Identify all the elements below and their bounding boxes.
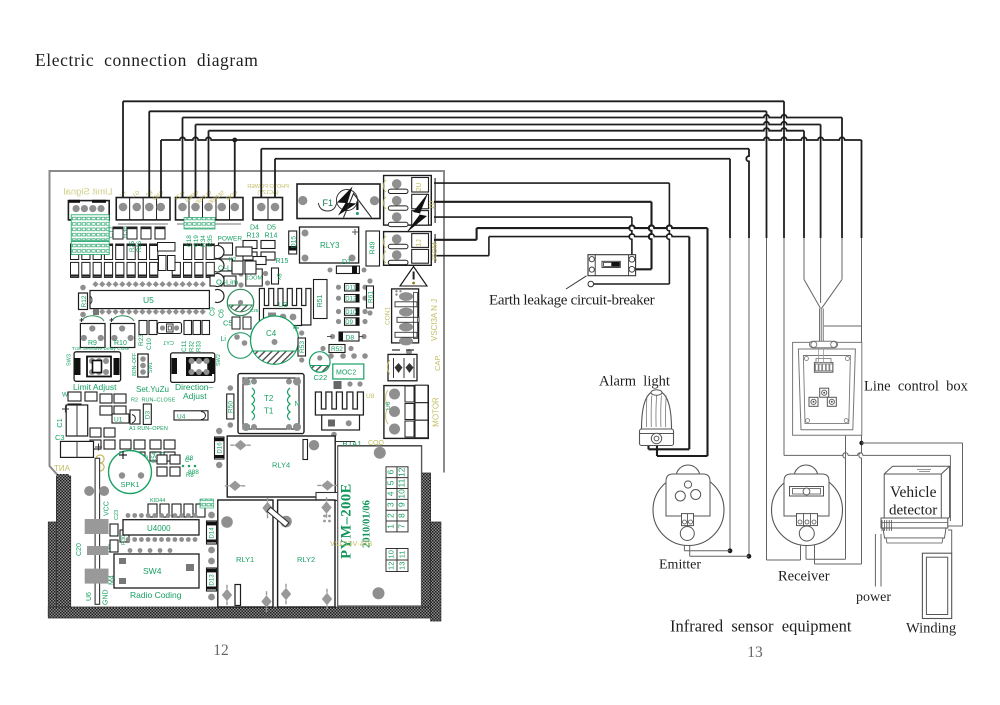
svg-text:U6: U6 xyxy=(86,592,93,601)
receiver inner shield xyxy=(784,474,829,516)
svg-text:2: 2 xyxy=(386,513,396,518)
svg-text:R51: R51 xyxy=(317,294,324,307)
svg-text:R2: R2 xyxy=(131,398,138,404)
trimmer R9 xyxy=(80,324,105,348)
svg-text:C18: C18 xyxy=(186,235,193,247)
svg-text:Winding: Winding xyxy=(906,621,956,637)
svg-text:ANT: ANT xyxy=(54,464,70,473)
svg-text:Electric connection diagram: Electric connection diagram xyxy=(35,50,258,70)
IC U4 xyxy=(174,411,208,420)
resistor R61 xyxy=(367,286,374,308)
svg-text:D7: D7 xyxy=(342,259,351,266)
svg-text:Earth leakage circuit-breaker: Earth leakage circuit-breaker xyxy=(489,293,655,309)
pin number table xyxy=(386,467,408,572)
wire W6 terminals A4/B5 to receiver and vehicle detector xyxy=(160,140,162,197)
svg-text:C4: C4 xyxy=(266,329,277,338)
breaker leader line xyxy=(566,276,587,289)
case corner block bottom-left of board xyxy=(57,474,69,482)
svg-text:8: 8 xyxy=(397,513,407,518)
transformer T1 T2 xyxy=(238,374,304,434)
capacitor C9 C6 (hatched) xyxy=(227,289,253,315)
case wall bottom xyxy=(48,607,436,618)
svg-text:R13: R13 xyxy=(247,233,260,240)
IC U5 xyxy=(90,291,209,309)
capacitor connector CAP xyxy=(388,354,417,380)
svg-text:SW1: SW1 xyxy=(148,362,154,373)
svg-text:R34: R34 xyxy=(200,235,207,247)
svg-text:C20: C20 xyxy=(76,543,83,556)
svg-text:R35: R35 xyxy=(207,235,214,247)
funnel wires into line control box xyxy=(804,279,821,308)
receiver lead wires xyxy=(805,527,807,559)
resistor R50 xyxy=(227,394,234,419)
wire W3 terminal B1 to line control box right xyxy=(182,118,184,198)
small parts row above switches xyxy=(139,321,147,335)
emitter cable gland xyxy=(680,527,694,541)
svg-text:Tr2k Sensitive Delay Close: Tr2k Sensitive Delay Close xyxy=(72,346,130,352)
svg-text:13: 13 xyxy=(747,644,763,661)
capacitor C22 (hatched) xyxy=(310,352,331,373)
terminal block Limit Signal xyxy=(68,201,109,220)
wire tray to winding xyxy=(948,530,952,553)
small caps under terminal A xyxy=(113,227,123,239)
relay RLY3 xyxy=(300,227,359,263)
vehicle detector tray xyxy=(881,518,948,528)
case wall left outer xyxy=(48,522,56,616)
diode row D11 D12 D10 D9 xyxy=(345,284,360,292)
svg-text:4: 4 xyxy=(386,491,396,496)
svg-text:2U: 2U xyxy=(416,183,423,192)
svg-text:Line control box: Line control box xyxy=(864,379,969,395)
diode D7 xyxy=(336,266,359,274)
power terminal block lower (2 way) xyxy=(384,232,432,266)
svg-text:D5: D5 xyxy=(267,225,276,232)
connector strip left (vertical) xyxy=(95,458,100,604)
resistor cluster under SetYuZu xyxy=(100,394,112,403)
wire W2 into receiver xyxy=(767,559,801,561)
wire W6 branch to vehicle detector tray xyxy=(862,442,963,444)
svg-text:×8: ×8 xyxy=(278,273,284,281)
svg-text:detector: detector xyxy=(889,503,937,519)
svg-text:D16: D16 xyxy=(217,442,224,454)
lightning bolt on power terminals xyxy=(406,193,428,233)
svg-text:11: 11 xyxy=(398,550,407,558)
silkscreen text block left (green) xyxy=(71,215,109,241)
wire W4 terminal B2 to line control box centre xyxy=(195,125,197,198)
relay RLY2 xyxy=(278,500,335,607)
crystal CY1 xyxy=(158,323,182,334)
svg-text:9: 9 xyxy=(397,502,407,507)
emitter body xyxy=(653,475,724,546)
svg-text:KID44: KID44 xyxy=(150,498,165,504)
svg-text:D14: D14 xyxy=(209,527,216,539)
IC U4000 xyxy=(123,520,199,535)
lightning bolt on fuse box xyxy=(337,187,357,216)
relay RLY4 bottom notch xyxy=(316,493,339,501)
svg-text:RLY2: RLY2 xyxy=(297,555,315,564)
svg-text:POWER: POWER xyxy=(218,236,243,243)
svg-text:R15: R15 xyxy=(276,258,289,265)
DIP switch Limit Adjust xyxy=(74,352,121,382)
trimmer R10 xyxy=(111,324,135,348)
svg-text:12: 12 xyxy=(397,467,407,477)
wire W5 terminal B3 to line control box left xyxy=(208,131,210,197)
gray dots near MOC2 xyxy=(328,353,334,359)
case wall left inner xyxy=(56,476,70,616)
optocoupler MOC2 xyxy=(333,364,364,379)
wire right-board exit to breaker right xyxy=(434,201,652,203)
svg-text:D11: D11 xyxy=(345,286,356,292)
IC U1 xyxy=(112,414,129,423)
svg-text:Li: Li xyxy=(221,336,227,343)
PCB board outline xyxy=(50,171,445,476)
svg-text:D3: D3 xyxy=(145,410,152,419)
speaker SPK1 xyxy=(109,451,152,494)
svg-text:R23: R23 xyxy=(138,334,145,346)
svg-text:10: 10 xyxy=(387,550,396,558)
svg-text:R12: R12 xyxy=(81,295,88,307)
svg-text:C11: C11 xyxy=(181,340,188,352)
svg-text:SPK1: SPK1 xyxy=(121,480,140,489)
svg-text:1J: 1J xyxy=(416,239,423,246)
svg-text:Limit Signal: Limit Signal xyxy=(63,187,112,198)
svg-text:U1: U1 xyxy=(114,417,123,424)
svg-text:R52: R52 xyxy=(331,346,343,353)
terminal block B (5 way) xyxy=(176,198,244,220)
warning triangle below power block xyxy=(400,267,427,287)
svg-text:SW3: SW3 xyxy=(67,354,73,366)
svg-text:11: 11 xyxy=(397,478,407,487)
resistor R49 xyxy=(366,231,380,266)
resistor R51 xyxy=(314,280,328,319)
wire W1 lower run to vehicle detector xyxy=(784,453,950,456)
receiver body xyxy=(772,475,843,546)
svg-text:O–Lim: O–Lim xyxy=(216,278,238,287)
svg-text:C3: C3 xyxy=(55,433,65,442)
receiver cable gland xyxy=(799,526,814,541)
svg-text:C19: C19 xyxy=(193,235,200,247)
svg-text:MOC2: MOC2 xyxy=(336,370,356,377)
svg-text:JТOM: JТOM xyxy=(432,242,439,261)
svg-text:T2: T2 xyxy=(264,394,274,403)
svg-text:13: 13 xyxy=(398,562,407,570)
silkscreen block under terminal B xyxy=(184,218,215,230)
DIP switch Direction Adjust xyxy=(171,353,215,383)
svg-text:R49: R49 xyxy=(370,241,377,254)
capacitor C4 (large) xyxy=(251,316,299,364)
svg-text:R61: R61 xyxy=(368,291,375,303)
heatsink U3 xyxy=(259,289,310,326)
case wall right outer xyxy=(431,522,441,621)
svg-text:Vehicle: Vehicle xyxy=(890,484,937,501)
svg-text:CAP.: CAP. xyxy=(433,354,442,371)
svg-text:D12: D12 xyxy=(345,297,357,303)
svg-text:1: 1 xyxy=(386,524,396,529)
white slanted bar between relays xyxy=(267,507,289,527)
relay RLY4 xyxy=(227,436,335,497)
line control box internal wires xyxy=(819,349,824,363)
DIP SW4 xyxy=(114,554,199,588)
svg-text:SW4: SW4 xyxy=(143,566,162,576)
emitter lead wires xyxy=(683,526,685,551)
svg-text:R50: R50 xyxy=(228,401,235,413)
relay RLY1 xyxy=(218,500,273,607)
case wall right inner xyxy=(421,473,430,607)
resistor R12 xyxy=(79,293,88,310)
svg-text:12: 12 xyxy=(387,562,396,570)
receiver lens bar xyxy=(790,487,824,497)
svg-text:SW2: SW2 xyxy=(216,354,222,366)
small caps right of rows xyxy=(236,247,252,256)
svg-text:C9: C9 xyxy=(210,307,217,316)
breaker switch xyxy=(602,261,620,267)
svg-text:R14: R14 xyxy=(265,233,278,240)
capacitor C3 xyxy=(61,441,94,457)
alarm light lead wires xyxy=(647,446,649,450)
switch SW1 with label ON-OFF xyxy=(138,354,149,377)
vehicle detector power wires xyxy=(874,534,876,587)
svg-text:MOC1: MOC1 xyxy=(246,276,263,282)
heatsink 2 xyxy=(315,392,363,415)
svg-text:U8: U8 xyxy=(366,393,375,400)
diode D13 xyxy=(207,568,217,591)
svg-text:CON1: CON1 xyxy=(385,307,392,325)
line control box terminal strip xyxy=(814,363,833,373)
svg-text:12: 12 xyxy=(213,642,229,659)
svg-text:R26: R26 xyxy=(137,240,143,252)
wire right-board exit to breaker bottom loop xyxy=(434,182,669,184)
svg-text:R32: R32 xyxy=(190,340,196,352)
svg-text:C6: C6 xyxy=(219,309,226,318)
alarm light lamp xyxy=(642,393,672,430)
svg-text:F1: F1 xyxy=(323,198,334,208)
svg-text:power: power xyxy=(856,590,891,605)
vehicle detector box xyxy=(884,466,949,524)
wire right-board exit to breaker top xyxy=(434,216,632,218)
svg-text:RLY3: RLY3 xyxy=(320,241,340,250)
warning triangle on fuse box xyxy=(344,194,372,218)
svg-text:888: 888 xyxy=(188,469,199,476)
svg-text:8TA·VCC12V: 8TA·VCC12V xyxy=(330,541,372,548)
diode D14 xyxy=(207,521,217,544)
line control box connector squares xyxy=(820,388,829,397)
svg-text:C25: C25 xyxy=(250,308,259,313)
svg-text:VCC: VCC xyxy=(104,501,111,516)
PYM-200E board area xyxy=(338,446,422,606)
svg-text:D13: D13 xyxy=(209,574,216,586)
svg-text:GND: GND xyxy=(103,589,110,605)
wire W2 terminal A3 to receiver xyxy=(148,111,150,197)
PCB lower board area xyxy=(71,473,422,607)
inductor Li xyxy=(228,333,254,359)
svg-text:C1: C1 xyxy=(55,418,64,428)
svg-text:D15: D15 xyxy=(291,236,298,248)
svg-text:N: N xyxy=(295,401,300,408)
svg-text:Alarm light: Alarm light xyxy=(599,374,670,390)
svg-text:Radio Coding: Radio Coding xyxy=(130,590,182,600)
svg-text:U4000: U4000 xyxy=(147,524,171,533)
pills column mid xyxy=(215,246,224,259)
svg-text:Receiver: Receiver xyxy=(778,569,830,585)
svg-text:C5: C5 xyxy=(223,319,233,328)
resistor R53 xyxy=(298,338,306,356)
svg-text:D8: D8 xyxy=(346,335,355,342)
label CAP yellow arcs xyxy=(387,360,390,374)
fuse F1 box xyxy=(297,184,380,219)
svg-text:C10: C10 xyxy=(146,338,153,350)
diode D6 xyxy=(272,268,279,284)
receiver terminal block xyxy=(797,514,818,526)
svg-text:R33: R33 xyxy=(197,340,203,352)
PCB board step edge bottom-right xyxy=(338,446,422,473)
fuse symbol circle with tail xyxy=(337,190,358,211)
terminal block C PHOTO POWER (2 way) xyxy=(253,198,283,220)
capacitor C1 xyxy=(66,405,88,436)
diode D8 xyxy=(339,332,359,341)
wire W1 terminal A1 to vehicle detector power xyxy=(122,101,124,197)
svg-text:U5: U5 xyxy=(143,295,154,305)
svg-text:Emitter: Emitter xyxy=(659,558,701,573)
emitter inner shield xyxy=(666,474,710,516)
wire W6 into receiver right xyxy=(815,563,862,565)
wire funnel branch to W6 xyxy=(824,325,862,327)
emitter terminal block xyxy=(682,514,694,526)
vehicle detector connector comb xyxy=(882,520,892,531)
svg-text:R25: R25 xyxy=(130,240,136,252)
svg-text:D4: D4 xyxy=(250,225,259,232)
motor terminal block xyxy=(384,386,428,439)
svg-text:A1 RUN–OPEN: A1 RUN–OPEN xyxy=(129,426,168,432)
svg-text:RLY1: RLY1 xyxy=(236,555,254,564)
diode D15 xyxy=(289,231,297,254)
resistor R52 xyxy=(329,345,345,353)
svg-text:Set.YuZu: Set.YuZu xyxy=(136,385,169,394)
svg-text:6: 6 xyxy=(386,470,396,475)
wire right-board to alarm light 2 (hop line lower) xyxy=(434,255,489,257)
power terminal block upper (3 way) xyxy=(384,176,432,226)
svg-text:CY1: CY1 xyxy=(163,341,174,347)
svg-text:MOTOR: MOTOR xyxy=(432,397,441,427)
receiver wire up to line control box xyxy=(843,435,846,559)
diode D3 xyxy=(143,404,151,424)
svg-text:C22: C22 xyxy=(314,373,328,382)
breaker bottom terminal circle xyxy=(588,281,594,287)
svg-text:3: 3 xyxy=(386,502,396,507)
svg-text:R53: R53 xyxy=(299,341,306,353)
svg-text:R9: R9 xyxy=(88,340,97,347)
svg-text:D9: D9 xyxy=(345,320,353,326)
svg-text:Infrared sensor equipment: Infrared sensor equipment xyxy=(670,617,852,636)
earth leakage circuit-breaker xyxy=(588,255,636,276)
svg-text:8ON–OFF: 8ON–OFF xyxy=(132,353,138,376)
wire W8 terminal C2 to emitter xyxy=(274,159,276,197)
svg-text:5: 5 xyxy=(386,480,396,485)
svg-text:RLY4: RLY4 xyxy=(272,461,290,470)
svg-text:Limit Adjust: Limit Adjust xyxy=(73,382,117,392)
optocoupler MOC1 xyxy=(246,269,262,286)
svg-text:Adjust: Adjust xyxy=(183,391,207,401)
svg-text:U4: U4 xyxy=(177,414,186,421)
svg-text:U6: U6 xyxy=(385,401,392,410)
capacitor pair mid xyxy=(219,243,233,255)
svg-text:R10: R10 xyxy=(114,340,127,347)
connector CON1 xyxy=(392,289,419,343)
svg-text:RUN–CLOSE: RUN–CLOSE xyxy=(142,398,176,404)
small parts right of speaker xyxy=(157,455,167,464)
svg-text:88: 88 xyxy=(186,455,194,462)
svg-text:U3: U3 xyxy=(278,300,288,309)
small caps near C20 xyxy=(110,524,118,536)
wire right-board to alarm light 1 (hop line upper) xyxy=(434,239,477,241)
line control box top bracket xyxy=(810,341,838,348)
line control box outer xyxy=(793,342,862,435)
resistor rows upper xyxy=(71,244,79,260)
alarm light base xyxy=(640,429,674,446)
wire W7 terminal C1 to emitter xyxy=(260,149,262,197)
svg-text:VSCI3A N J: VSCI3A N J xyxy=(430,299,439,341)
resistor cluster mid low xyxy=(90,428,101,437)
svg-text:7: 7 xyxy=(397,524,407,529)
diode D16 xyxy=(215,437,225,459)
capacitor cluster mid rows xyxy=(158,243,176,252)
line control box inner panel xyxy=(798,349,855,430)
svg-text:C23: C23 xyxy=(114,510,120,520)
svg-text:D10: D10 xyxy=(345,310,357,316)
svg-text:T1: T1 xyxy=(264,407,274,416)
svg-text:1U: 1U xyxy=(429,201,436,210)
svg-text:10: 10 xyxy=(397,489,407,499)
winding loop xyxy=(922,553,951,618)
terminal block A (4 way) xyxy=(116,198,170,220)
